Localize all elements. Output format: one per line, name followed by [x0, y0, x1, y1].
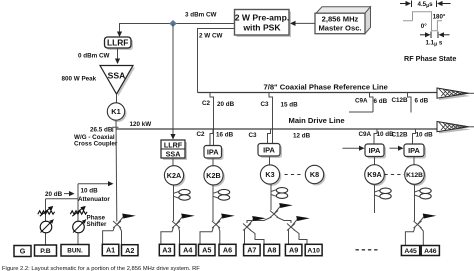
svg-text:C2: C2 — [197, 131, 206, 138]
pre-buncher box P.B — [35, 245, 57, 256]
wire: 3 dBm CW line from pre-amp to LLRF — [120, 24, 235, 34]
wire: drop from junction to LLRF/SSA box of K2A — [172, 24, 174, 136]
accelerator section A5 — [199, 244, 216, 255]
wire: master osc to pre-amp with arrow — [294, 22, 315, 24]
svg-text:1.1μ s: 1.1μ s — [426, 39, 443, 47]
svg-text:A4: A4 — [183, 246, 192, 255]
SLED cavities K2B — [213, 192, 218, 198]
tap C2 16 dB on main drive line feeding IPA of K2B — [210, 129, 213, 146]
wire: 2 W CW line from pre-amp down to phase reference line — [198, 29, 235, 93]
tap C3 15 dB on phase reference line — [269, 93, 273, 144]
svg-text:C9A: C9A — [359, 131, 372, 138]
node: junction diamond on 3 dBm line — [169, 20, 177, 27]
upper splitter X with flag (K3) — [270, 211, 278, 218]
svg-text:A45: A45 — [404, 248, 417, 255]
lower-left splitter X with flag (K3) — [243, 224, 251, 231]
accelerator section A7 — [244, 244, 261, 255]
accelerator gun box G — [14, 246, 31, 257]
svg-text:A6: A6 — [223, 246, 232, 255]
IPA box for K9A — [367, 146, 386, 159]
svg-text:120 kW: 120 kW — [130, 121, 152, 128]
wire below K9A (ends) — [374, 184, 376, 213]
svg-text:Figure 2.2: Layout schematic f: Figure 2.2: Layout schematic for a porti… — [2, 266, 200, 271]
svg-text:Master Osc.: Master Osc. — [318, 24, 361, 33]
svg-text:6 dB: 6 dB — [374, 98, 388, 105]
svg-text:2 W Pre-amp.: 2 W Pre-amp. — [235, 13, 289, 23]
svg-text:10 dB: 10 dB — [81, 188, 99, 195]
svg-text:A2: A2 — [125, 246, 134, 255]
svg-text:2,856 MHz: 2,856 MHz — [322, 15, 359, 24]
dashed continuation between A10 and A45 — [356, 249, 378, 251]
svg-text:Cross Coupler: Cross Coupler — [74, 140, 118, 147]
taper arrow end of phase reference line — [439, 91, 471, 101]
svg-text:A5: A5 — [202, 246, 211, 255]
legs to A45 / A46 — [405, 227, 415, 246]
tap C3 12 dB on main drive line feeding IPA of K3 — [268, 129, 271, 144]
klystron K2A — [166, 168, 185, 187]
wire K1 down through cross coupler to bottom section — [115, 120, 118, 221]
svg-text:3 dBm CW: 3 dBm CW — [185, 11, 217, 18]
svg-text:180°: 180° — [433, 14, 446, 21]
wire to K3 — [269, 156, 271, 165]
svg-text:Main Drive Line: Main Drive Line — [289, 116, 345, 125]
svg-text:K2A: K2A — [167, 171, 181, 180]
svg-text:C3: C3 — [249, 132, 258, 139]
svg-text:A9: A9 — [289, 246, 298, 255]
svg-text:A7: A7 — [247, 246, 256, 255]
splitter X with load flag (K2B) — [212, 221, 220, 228]
tap C9A 10 dB on main drive line feeding IPA of K9A — [374, 129, 377, 144]
svg-text:with PSK: with PSK — [242, 23, 281, 33]
svg-text:BUN.: BUN. — [67, 248, 83, 255]
SSA amplifier triangle, 800 W Peak — [102, 68, 135, 97]
wire: P.B chain tap from BUN chain — [46, 198, 79, 200]
wire below K2A — [173, 185, 175, 221]
buncher box BUN. — [61, 245, 89, 257]
main drive line — [116, 128, 437, 130]
svg-text:SSA: SSA — [108, 70, 126, 80]
legs to A1 / A2 — [103, 227, 115, 244]
svg-text:20 dB: 20 dB — [45, 191, 63, 198]
IPA box for K2B — [206, 148, 224, 161]
tap C12B 6 dB on phase reference line — [408, 93, 412, 113]
wire LLRF to SSA — [117, 48, 119, 60]
wire to K12B — [413, 157, 415, 165]
wire below K2B — [212, 185, 214, 221]
svg-text:G: G — [20, 247, 26, 256]
SLED cavities K3 — [271, 190, 276, 196]
svg-text:A3: A3 — [162, 246, 171, 255]
svg-text:A46: A46 — [424, 248, 437, 255]
wire to K2A — [172, 158, 174, 166]
SLED cavities K9A — [375, 190, 380, 196]
LLRF/SSA box for K2A — [163, 142, 187, 160]
accelerator section A4 — [180, 244, 197, 255]
accelerator section A2 — [122, 245, 139, 256]
svg-text:IPA: IPA — [369, 146, 381, 155]
svg-text:IPA: IPA — [207, 147, 219, 156]
svg-text:A8: A8 — [267, 246, 276, 255]
phase shifter circle P.B chain — [40, 221, 52, 233]
distribution to lower splitters — [247, 217, 272, 223]
wire BUN chain vertical — [77, 184, 79, 245]
svg-text:20 dB: 20 dB — [217, 101, 235, 108]
klystron K12B (dashed from K9A) — [385, 174, 405, 176]
svg-text:15 dB: 15 dB — [281, 101, 299, 108]
legs to A5 / A6 — [200, 227, 214, 244]
cross coupler tick — [113, 127, 119, 132]
LLRF box K1 chain — [107, 39, 134, 50]
accelerator section A3 — [159, 244, 174, 255]
svg-text:C12B: C12B — [392, 132, 409, 139]
svg-text:C3: C3 — [261, 101, 270, 108]
master oscillator 3D box: 2,856 MHz Master Osc. — [316, 7, 371, 13]
svg-text:K8: K8 — [310, 170, 319, 179]
svg-text:K9A: K9A — [367, 170, 381, 179]
svg-text:Attenuator: Attenuator — [78, 196, 110, 203]
legs to A3 / A4 — [161, 227, 174, 244]
klystron K2B — [206, 168, 225, 187]
accelerator section A9 — [285, 244, 302, 255]
svg-text:Shifter: Shifter — [87, 221, 107, 228]
accelerator section A45 — [401, 246, 419, 256]
svg-text:RF Phase State: RF Phase State — [404, 54, 456, 63]
svg-text:7/8" Coaxial Phase Reference L: 7/8" Coaxial Phase Reference Line — [264, 83, 388, 92]
svg-text:4.5μs: 4.5μs — [418, 1, 434, 9]
IPA box for K12B — [406, 146, 426, 159]
svg-text:K3: K3 — [265, 170, 274, 179]
accelerator section A8 — [264, 244, 280, 255]
pre-amplifier box: 2 W Pre-amp. with PSK — [237, 12, 292, 38]
svg-text:LLRF: LLRF — [164, 141, 183, 150]
svg-text:C9A: C9A — [355, 98, 368, 105]
svg-text:12 dB: 12 dB — [293, 133, 311, 140]
svg-text:K12B: K12B — [406, 172, 423, 179]
wire P.B chain vertical — [45, 199, 47, 245]
svg-text:IPA: IPA — [408, 146, 420, 155]
svg-text:LLRF: LLRF — [107, 38, 128, 48]
waveform: 180/0 phase pulse — [403, 12, 442, 31]
SLED cavities K2A — [174, 192, 179, 198]
variable attenuator symbol BUN chain (zigzag with arrow) — [70, 211, 87, 214]
klystron K1 — [116, 94, 118, 103]
klystron K9A — [367, 167, 387, 187]
wire below K3 — [270, 184, 272, 210]
svg-text:16 dB: 16 dB — [216, 132, 234, 139]
splitter X with load flag (K12B) — [414, 221, 422, 228]
svg-text:IPA: IPA — [263, 145, 275, 154]
svg-text:K2B: K2B — [206, 171, 220, 180]
splitter X with load flag (A1/A2) — [113, 221, 121, 228]
svg-text:800 W Peak: 800 W Peak — [62, 75, 97, 82]
svg-text:SSA: SSA — [166, 149, 181, 158]
tap C9A 6 dB on phase reference line (L-drop) — [370, 93, 374, 113]
svg-text:10 dB: 10 dB — [416, 132, 434, 139]
svg-text:2 W CW: 2 W CW — [199, 32, 222, 39]
wire: BUN chain tap from K1 line with arrow — [78, 183, 108, 185]
svg-text:K1: K1 — [111, 107, 120, 116]
tap C12B 10 dB on main drive line feeding IPA of K12B — [413, 129, 416, 144]
lower-right splitter X with flag (K3) — [287, 224, 295, 231]
svg-text:P.B: P.B — [40, 248, 51, 255]
accelerator section A10 — [305, 244, 322, 255]
accelerator section A46 — [421, 246, 439, 256]
RF phase state timing diagram — [400, 1, 451, 8]
wire below K12B — [414, 184, 416, 221]
svg-text:0°: 0° — [421, 23, 427, 30]
IPA box for K3 — [260, 146, 282, 159]
svg-text:A10: A10 — [307, 247, 320, 254]
svg-text:6 dB: 6 dB — [415, 97, 429, 104]
variable attenuator symbol P.B chain (zigzag with arrow) — [38, 211, 55, 214]
input arrow into K12B IPA — [390, 147, 400, 149]
accelerator section A1 — [102, 244, 119, 255]
7/8 inch coaxial phase reference line — [198, 92, 438, 94]
input arrow into K9A IPA — [343, 147, 361, 149]
accelerator section A6 — [219, 244, 236, 255]
tap C2 20 dB on phase reference line — [210, 93, 214, 146]
wire to K2B — [212, 158, 214, 166]
taper arrow end of main drive line — [439, 124, 471, 134]
splitter X with load flag (K2A) — [172, 221, 180, 228]
phase shifter circle BUN chain — [73, 221, 85, 233]
svg-text:A1: A1 — [106, 246, 115, 255]
svg-text:26.5 dB: 26.5 dB — [90, 126, 113, 133]
klystron K8 (dashed continuation from K3) — [285, 174, 304, 176]
SLED cavities K12B — [415, 190, 420, 196]
svg-text:C2: C2 — [202, 100, 211, 107]
wire to K9A — [374, 157, 376, 166]
svg-text:C12B: C12B — [392, 97, 409, 104]
svg-text:0 dBm CW: 0 dBm CW — [78, 53, 110, 60]
klystron K3 — [262, 167, 281, 186]
